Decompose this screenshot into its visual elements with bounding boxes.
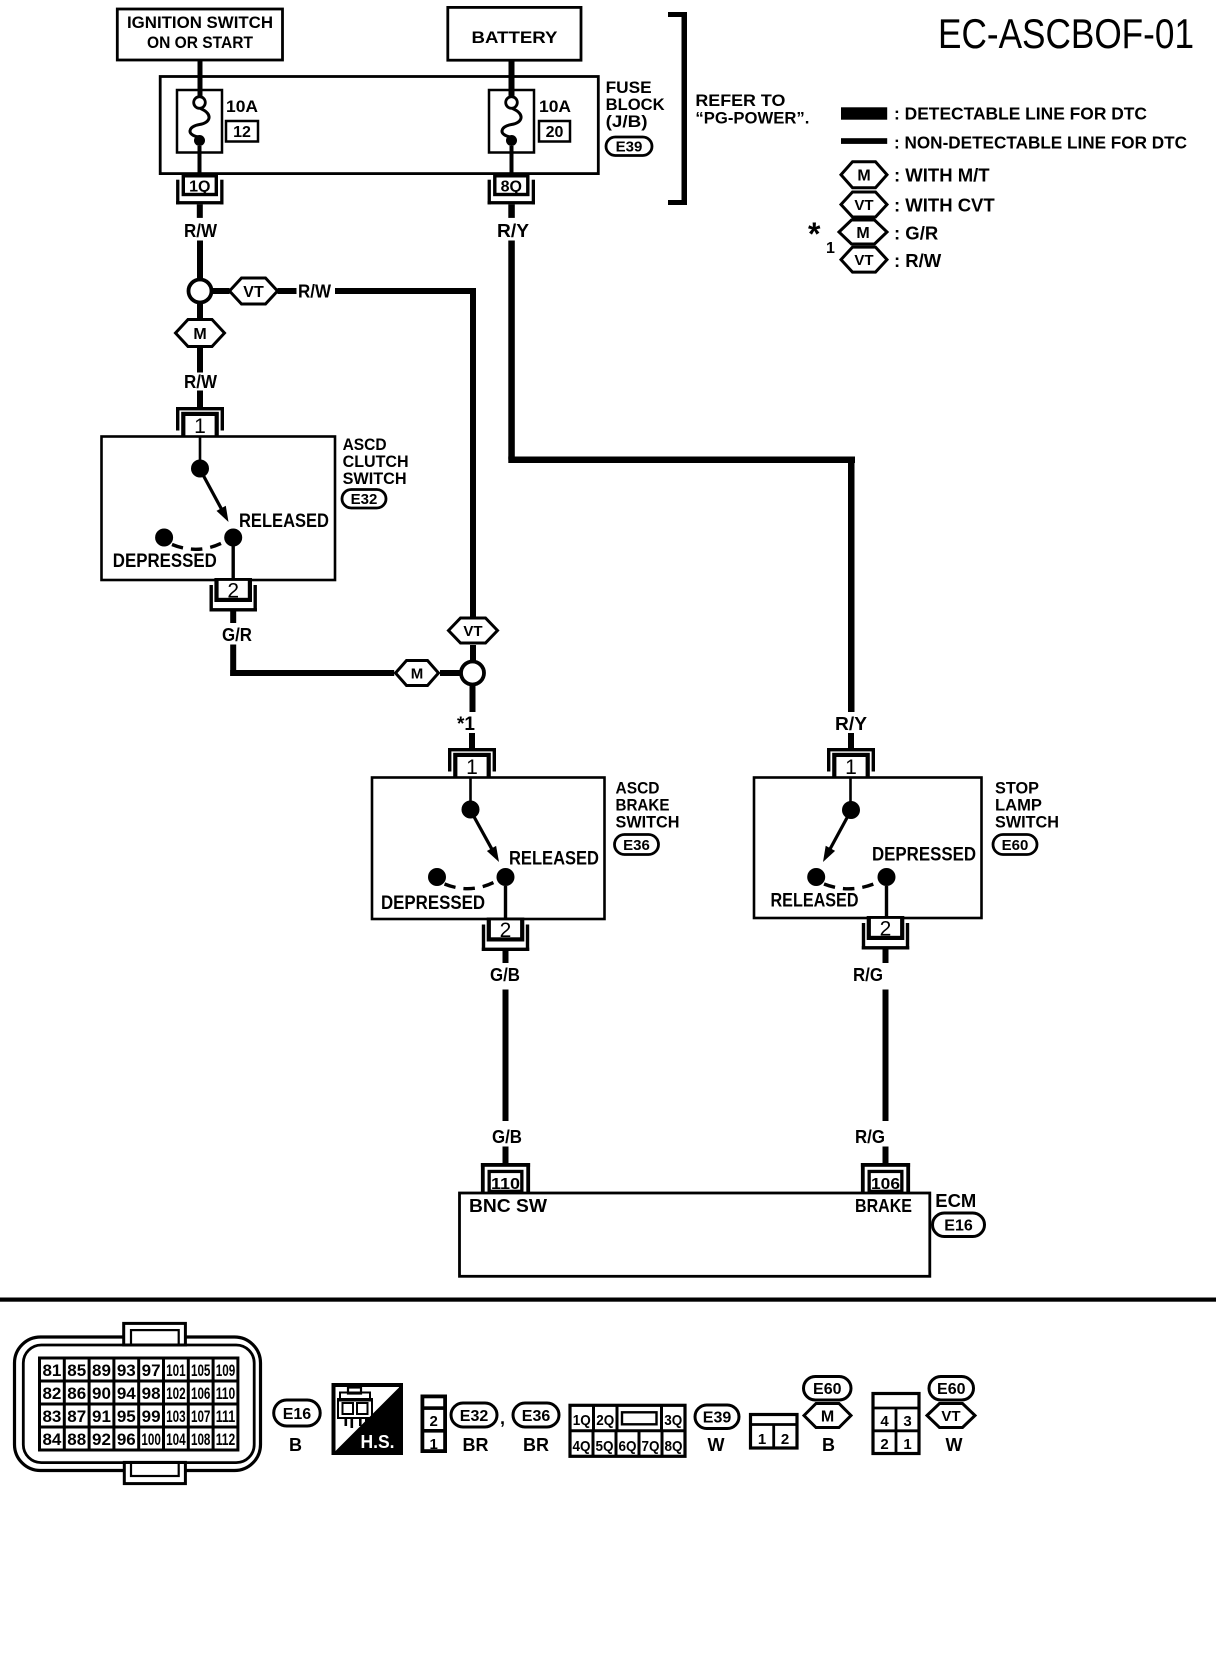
svg-text:83: 83	[42, 1407, 61, 1426]
connector ref E60 oval bottom left	[804, 1377, 852, 1401]
wire R/W vertical down to VT hexagon 2	[470, 288, 476, 617]
svg-text:2Q: 2Q	[596, 1412, 614, 1429]
fuse 20 10A	[489, 90, 534, 153]
svg-text:91: 91	[92, 1407, 111, 1426]
svg-text:98: 98	[142, 1384, 161, 1403]
svg-text:93: 93	[117, 1361, 136, 1380]
svg-text:: G/R: : G/R	[894, 223, 938, 244]
svg-text:H.S.: H.S.	[361, 1432, 395, 1452]
wire fuse 12 to connector 1Q	[198, 146, 202, 174]
legend non-detectable line bar	[841, 138, 887, 144]
legend VT hexagon R/W	[841, 247, 887, 272]
svg-text:1Q: 1Q	[573, 1412, 591, 1429]
connector ref E60 oval	[993, 835, 1037, 855]
stop lamp switch name label	[995, 779, 1059, 832]
svg-text:3Q: 3Q	[664, 1412, 682, 1429]
svg-text:110: 110	[216, 1384, 236, 1403]
svg-text:1: 1	[194, 415, 206, 438]
refer-to bracket	[668, 12, 687, 205]
svg-text:87: 87	[67, 1407, 86, 1426]
svg-text:DEPRESSED: DEPRESSED	[872, 845, 976, 866]
stop lamp switch common contact dot	[842, 801, 860, 819]
clutch switch pin 1 line	[199, 437, 202, 462]
wire stub below 8Q	[508, 204, 515, 218]
wire stub below brake connector 2	[503, 951, 509, 963]
ASCD brake switch name label	[616, 779, 680, 832]
svg-text:RELEASED: RELEASED	[239, 511, 329, 532]
svg-text:BRAKE: BRAKE	[855, 1196, 912, 1216]
svg-text:DEPRESSED: DEPRESSED	[113, 551, 217, 572]
ASCD clutch switch name label	[343, 435, 409, 488]
brake switch arm arrow to released	[473, 814, 493, 851]
svg-text:20: 20	[546, 124, 564, 141]
wire junction to VT hexagon	[213, 288, 230, 294]
svg-text:*: *	[808, 216, 821, 252]
svg-text:: R/W: : R/W	[894, 250, 942, 271]
ASCD brake switch box	[372, 778, 605, 920]
svg-text:VT: VT	[243, 284, 264, 301]
svg-text:88: 88	[67, 1430, 86, 1449]
svg-text:107: 107	[191, 1407, 211, 1426]
brake switch pin 1 line	[469, 778, 472, 803]
clutch switch depressed contact dot	[155, 529, 173, 547]
connector ref E32 oval bottom	[451, 1403, 497, 1427]
svg-text:2: 2	[880, 1436, 888, 1453]
svg-text:10A: 10A	[226, 97, 258, 116]
svg-text:REFER TO: REFER TO	[695, 91, 785, 110]
svg-text:E16: E16	[944, 1218, 973, 1235]
svg-text:BNC SW: BNC SW	[469, 1196, 547, 1216]
svg-text:VT: VT	[854, 197, 873, 214]
svg-text:4: 4	[880, 1413, 889, 1430]
wire ignition to fuse 12	[198, 60, 203, 98]
svg-text:97: 97	[142, 1361, 161, 1380]
svg-text:G/B: G/B	[490, 965, 520, 985]
wire M hexagon down	[197, 347, 203, 373]
fuse 12 10A	[177, 90, 222, 153]
wire G/R down to corner	[230, 645, 236, 677]
stop lamp switch released contact dot	[807, 868, 825, 886]
svg-text:M: M	[856, 225, 869, 242]
junction circle M/VT split	[189, 280, 212, 303]
wire G/B long vertical	[503, 990, 509, 1122]
svg-text:89: 89	[92, 1361, 111, 1380]
stop lamp switch dashed travel arc	[824, 882, 879, 889]
svg-text:M: M	[411, 665, 424, 682]
brake switch dashed travel arc	[445, 882, 496, 889]
wire battery to fuse 20	[509, 60, 515, 98]
connector ref E32 oval	[342, 490, 386, 509]
fuse number 20 box	[539, 121, 570, 142]
svg-text:1: 1	[845, 756, 857, 779]
svg-text:106: 106	[871, 1176, 900, 1193]
svg-text:1: 1	[903, 1436, 911, 1453]
svg-text:103: 103	[166, 1407, 186, 1426]
svg-text:G/R: G/R	[222, 625, 252, 645]
svg-text:E60: E60	[1002, 837, 1029, 854]
svg-text:99: 99	[142, 1407, 161, 1426]
svg-text:100: 100	[141, 1430, 161, 1449]
M hexagon branch	[176, 320, 225, 347]
svg-text:R/G: R/G	[853, 965, 883, 985]
svg-text:101: 101	[166, 1361, 186, 1380]
svg-text:6Q: 6Q	[619, 1438, 637, 1455]
connector ref E60 oval bottom right	[929, 1377, 974, 1401]
brake switch common contact dot	[462, 801, 480, 819]
wire star-1 to brake switch connector 1	[469, 733, 475, 748]
svg-text:E32: E32	[460, 1408, 489, 1425]
svg-text:10A: 10A	[539, 97, 571, 116]
clutch switch dashed travel arc	[172, 543, 223, 550]
ignition switch box	[117, 9, 282, 60]
wire R/W to junction circle	[197, 241, 203, 279]
svg-text:R/G: R/G	[855, 1127, 885, 1147]
legend star-1 marker	[808, 216, 835, 257]
svg-text:: NON-DETECTABLE LINE FOR DTC: : NON-DETECTABLE LINE FOR DTC	[894, 133, 1187, 153]
wire R/Y vertical down to stop lamp switch	[848, 457, 855, 713]
wire G/B to ECM connector 110	[503, 1147, 509, 1164]
stop lamp switch depressed contact dot	[878, 868, 896, 886]
connector ref E36 oval	[615, 835, 659, 855]
svg-text:“PG-POWER”.: “PG-POWER”.	[695, 109, 809, 128]
svg-text:VT: VT	[854, 252, 873, 269]
legend M hexagon G/R	[839, 220, 887, 244]
clutch/brake switch 2-pin connector	[421, 1395, 448, 1454]
svg-text:1: 1	[826, 240, 835, 257]
clutch switch pin 2 line	[231, 546, 234, 580]
svg-text:B: B	[289, 1435, 302, 1455]
wire VT hexagon 2 to junction circle 2	[470, 645, 476, 661]
clutch switch released contact dot	[224, 529, 242, 547]
svg-text:108: 108	[191, 1430, 211, 1449]
connector ref E16 oval bottom	[274, 1400, 321, 1426]
svg-text:IGNITION SWITCH: IGNITION SWITCH	[127, 13, 273, 32]
svg-text:1: 1	[466, 756, 478, 779]
svg-text:111: 111	[216, 1407, 236, 1426]
svg-text:8Q: 8Q	[665, 1438, 683, 1455]
wire below junction circle 2	[470, 686, 476, 713]
svg-text:95: 95	[117, 1407, 136, 1426]
wire stub below clutch connector 2	[230, 612, 236, 624]
svg-text:VT: VT	[463, 623, 482, 640]
connector 8Q	[488, 174, 535, 204]
H.S. view symbol	[334, 1385, 402, 1453]
junction circle star-1	[461, 662, 484, 685]
ASCD clutch switch box	[102, 437, 336, 581]
wire R/Y vertical from 8Q	[508, 241, 515, 460]
fuse block box	[160, 77, 598, 174]
svg-text:(J/B): (J/B)	[606, 112, 648, 131]
connector ref E36 oval bottom	[513, 1403, 559, 1427]
svg-text:102: 102	[166, 1384, 186, 1403]
svg-text:104: 104	[166, 1430, 186, 1449]
svg-text:R/W: R/W	[184, 221, 217, 241]
svg-text:2: 2	[781, 1431, 789, 1448]
svg-text:105: 105	[191, 1361, 211, 1380]
svg-text:12: 12	[233, 124, 251, 141]
separator line	[0, 1298, 1216, 1302]
svg-text:82: 82	[42, 1384, 61, 1403]
M hexagon G/R branch	[396, 661, 439, 686]
svg-text:ECM: ECM	[935, 1191, 976, 1211]
wire R/W horizontal to right corner	[335, 288, 476, 294]
svg-text:E39: E39	[616, 139, 643, 156]
svg-text:E16: E16	[283, 1406, 312, 1423]
svg-text:94: 94	[117, 1384, 136, 1403]
svg-text:M: M	[821, 1408, 834, 1425]
wire R/G to ECM connector 106	[883, 1147, 889, 1164]
legend detectable line bar	[841, 107, 887, 119]
ECM 112-pin connector drawing	[15, 1323, 261, 1483]
legend VT hexagon	[841, 192, 887, 217]
connector 2 ASCD clutch switch	[210, 578, 257, 612]
brake switch depressed contact dot	[428, 868, 446, 886]
wire junction to M hexagon	[197, 304, 203, 320]
svg-text:DEPRESSED: DEPRESSED	[381, 893, 485, 914]
svg-text:RELEASED: RELEASED	[509, 849, 599, 870]
svg-text:85: 85	[67, 1361, 86, 1380]
connector 1 stop lamp switch	[827, 748, 875, 779]
svg-text:ON OR START: ON OR START	[147, 33, 254, 52]
stop lamp switch 2-pin connector	[751, 1415, 798, 1449]
brake switch pin 2 line	[504, 886, 507, 919]
connector ref E16 oval	[933, 1213, 985, 1237]
svg-text:86: 86	[67, 1384, 86, 1403]
stop lamp switch pin 2 line	[885, 886, 888, 918]
legend M hexagon	[841, 162, 887, 188]
svg-text:R/Y: R/Y	[835, 714, 867, 734]
fuse block Q connector grid	[570, 1405, 685, 1456]
svg-text:92: 92	[92, 1430, 111, 1449]
svg-text:M: M	[193, 326, 206, 343]
svg-text:81: 81	[42, 1361, 61, 1380]
svg-text:SWITCH: SWITCH	[995, 813, 1059, 832]
stop lamp switch arm arrow to released	[829, 815, 849, 851]
svg-text:8Q: 8Q	[501, 179, 522, 196]
connector ref E39 oval	[606, 137, 652, 156]
svg-text:,: ,	[500, 1408, 505, 1428]
svg-text:3: 3	[903, 1413, 911, 1430]
wire stub below 1Q	[197, 204, 203, 218]
fuse number 12 box	[226, 121, 258, 142]
svg-text:R/W: R/W	[298, 282, 331, 302]
svg-text:: WITH M/T: : WITH M/T	[894, 165, 990, 186]
svg-text:1Q: 1Q	[189, 179, 210, 196]
stop lamp switch pin 1 line	[849, 778, 852, 803]
wire fuse 20 to connector 8Q	[510, 146, 514, 174]
clutch switch arm arrow to released	[202, 473, 223, 511]
svg-text:B: B	[822, 1435, 835, 1455]
svg-text:109: 109	[216, 1361, 236, 1380]
fuse block label	[606, 78, 666, 131]
VT hexagon bottom	[927, 1404, 975, 1428]
connector 1 ASCD brake switch	[448, 748, 496, 779]
wire G/R horizontal to M hexagon	[230, 670, 394, 676]
svg-text:E39: E39	[703, 1410, 732, 1427]
connector 1 ASCD clutch switch	[176, 407, 224, 438]
wire R/Y to stop lamp connector 1	[848, 733, 854, 748]
svg-text:2: 2	[227, 580, 239, 603]
svg-text:R/W: R/W	[184, 372, 217, 392]
svg-text:W: W	[708, 1435, 725, 1455]
svg-text:BATTERY: BATTERY	[472, 28, 559, 47]
svg-text:7Q: 7Q	[642, 1438, 660, 1455]
svg-text:BR: BR	[463, 1435, 489, 1455]
wire R/Y horizontal to stop lamp side	[508, 457, 855, 464]
battery box	[448, 7, 581, 60]
ECM pin grid	[40, 1358, 238, 1450]
svg-text:E60: E60	[937, 1381, 966, 1398]
svg-text:W: W	[946, 1435, 963, 1455]
svg-text:E36: E36	[623, 837, 650, 854]
svg-text:90: 90	[92, 1384, 111, 1403]
svg-text:E32: E32	[351, 491, 378, 508]
M hexagon bottom	[804, 1404, 851, 1428]
wire stub below stop lamp connector 2	[883, 950, 889, 964]
svg-text:SWITCH: SWITCH	[616, 813, 680, 832]
svg-text:G/B: G/B	[492, 1127, 522, 1147]
connector 2 ASCD brake switch	[482, 918, 529, 952]
svg-text:1: 1	[430, 1436, 438, 1453]
svg-text:RELEASED: RELEASED	[771, 891, 859, 912]
connector 106 ECM	[861, 1163, 910, 1193]
connector 110 ECM	[481, 1163, 530, 1193]
wire R/G long vertical	[883, 990, 889, 1122]
svg-text:M: M	[857, 167, 870, 184]
svg-text:110: 110	[491, 1176, 520, 1193]
svg-text:SWITCH: SWITCH	[343, 469, 407, 488]
svg-text:: WITH CVT: : WITH CVT	[894, 195, 995, 216]
refer to PG-POWER note	[695, 91, 809, 128]
VT hexagon branch	[230, 278, 278, 304]
svg-text:EC-ASCBOF-01: EC-ASCBOF-01	[938, 10, 1194, 57]
svg-text:84: 84	[42, 1430, 61, 1449]
VT hexagon R/W branch	[449, 618, 498, 643]
svg-text:E36: E36	[522, 1408, 551, 1425]
svg-text:2: 2	[430, 1413, 438, 1430]
wire VT hexagon to R/W label	[278, 288, 297, 294]
brake switch released contact dot	[497, 868, 515, 886]
stop lamp switch 4-pin connector	[873, 1394, 919, 1454]
connector ref E39 oval bottom	[695, 1405, 739, 1429]
svg-text:4Q: 4Q	[573, 1438, 591, 1455]
svg-text:BR: BR	[523, 1435, 549, 1455]
stop lamp switch box	[754, 778, 982, 919]
svg-text:: DETECTABLE LINE FOR DTC: : DETECTABLE LINE FOR DTC	[894, 104, 1147, 124]
svg-text:112: 112	[216, 1430, 236, 1449]
ECM box	[460, 1193, 930, 1276]
svg-text:R/Y: R/Y	[497, 221, 529, 241]
svg-text:5Q: 5Q	[596, 1438, 614, 1455]
clutch switch common contact dot	[191, 460, 209, 478]
svg-text:2: 2	[880, 918, 892, 941]
svg-text:VT: VT	[941, 1408, 960, 1425]
connector 2 stop lamp switch	[862, 916, 909, 950]
svg-text:2: 2	[500, 919, 512, 942]
svg-text:96: 96	[117, 1430, 136, 1449]
svg-text:*1: *1	[457, 714, 475, 735]
svg-text:1: 1	[758, 1431, 766, 1448]
wire R/W to clutch switch connector 1	[197, 391, 203, 408]
wire M hexagon to junction circle 2	[440, 670, 461, 676]
svg-text:106: 106	[191, 1384, 211, 1403]
connector 1Q	[176, 174, 223, 204]
svg-text:E60: E60	[813, 1381, 842, 1398]
